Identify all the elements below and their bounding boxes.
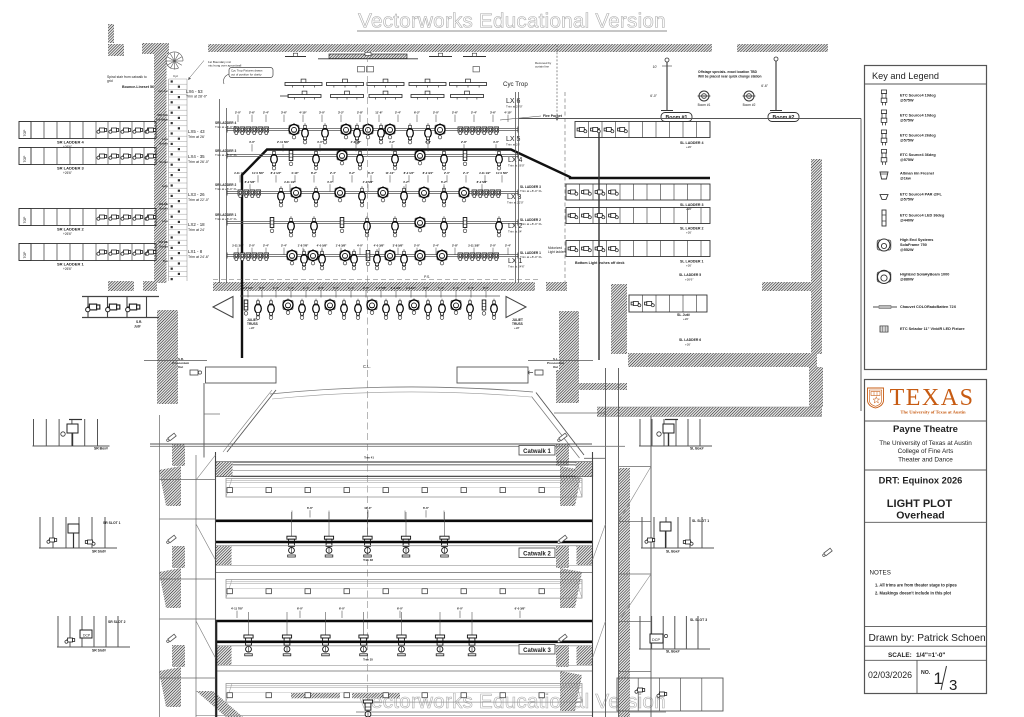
batten LX6 at 347 (331, 95, 364, 98)
apron left diagonal (227, 390, 276, 452)
watermark bottom underline (356, 711, 666, 713)
svg-text:4'-0 3/8": 4'-0 3/8" (351, 140, 362, 144)
juliet fixture mover at 456 (451, 299, 461, 315)
LX2 fixture s4d at 314 (311, 216, 318, 237)
LX1 fixture mover at 345 (340, 249, 350, 265)
wall: top strip left piece (142, 43, 169, 54)
SL dashed line (564, 92, 566, 283)
svg-text:Border: Border (159, 245, 168, 249)
svg-text:SL SLOT 1: SL SLOT 1 (692, 519, 709, 523)
batten LX6 at 385.5 (369, 95, 402, 98)
LX5 fixture mover at 294 (289, 123, 299, 139)
SL ladder fixture SL LADDER 1 cell 4 (609, 247, 619, 252)
svg-text:Trim at 24'6": Trim at 24'6" (508, 265, 525, 269)
SL ladder fixture SL Jut# cell 1 (631, 302, 641, 307)
SL boxes bottom-right row (617, 678, 723, 711)
catwalk3 fixture at 401.5 (401, 612, 403, 635)
ladder fixture in SR LADDER 2 cell 5 (145, 215, 155, 220)
SL ladder fixture SL LADDER 2 cell 3 (595, 214, 605, 219)
ladder fixture in SR LADDER 4 cell 2 (109, 128, 119, 133)
svg-text:+26': +26' (683, 317, 689, 321)
svg-text:2'-11 5/8": 2'-11 5/8" (277, 140, 290, 144)
svg-text:2'-4": 2'-4" (318, 286, 325, 290)
truss band 3 (226, 684, 582, 703)
svg-text:SL LADDER 2: SL LADDER 2 (680, 227, 704, 231)
wall: floor strip far left B (143, 281, 157, 291)
catwalk3 walkway end hatch right (577, 646, 593, 665)
SL room divider horizontals (619, 466, 652, 468)
svg-text:+28': +28' (249, 326, 255, 330)
SR jut ladder box bottom rail (82, 317, 159, 319)
wall: SL bay hatch 2a (556, 546, 569, 568)
svg-text:Bottom Light Inches off deck: Bottom Light Inches off deck (575, 261, 625, 265)
wall: SR lower wall B (157, 370, 178, 404)
SL prosc fixture (535, 370, 543, 375)
LX1 fixture mover at 420 (415, 249, 425, 265)
SR jut fixtures (86, 304, 100, 312)
SL slot 1 (641, 517, 643, 548)
svg-text:Payne Theatre: Payne Theatre (893, 424, 958, 435)
ladder fixture in SR LADDER 4 cell 5 (145, 128, 155, 133)
svg-text:The University of Texas at Aus: The University of Texas at Austin (900, 410, 966, 415)
svg-text:@880W: @880W (900, 277, 914, 281)
svg-text:6'-0": 6'-0" (457, 607, 464, 611)
ladder fixture in SR LADDER 3 cell 3 (121, 154, 131, 159)
section line (865, 521, 987, 523)
svg-text:4'-0": 4'-0" (423, 286, 430, 290)
svg-text:1'-4": 1'-4" (468, 286, 475, 290)
SL jut ladder (629, 295, 707, 312)
svg-text:2'-4": 2'-4" (471, 111, 478, 115)
svg-text:11'-6": 11'-6" (375, 111, 383, 115)
lineset schedule rails (168, 79, 170, 281)
juliet fixture mover at 330 (325, 299, 335, 315)
juliet fixture s4d at 470 (467, 299, 474, 320)
SL ladder fixture SL LADDER 4 cell 3 (604, 128, 614, 133)
LX1 right cluster (458, 253, 463, 258)
catwalk3 fixture at 440 (439, 612, 441, 635)
wall: bottom-left stair hatch (196, 691, 243, 717)
svg-text:Legs: Legs (162, 137, 169, 141)
wall: SL bay hatch 1a (556, 444, 569, 466)
wall sconce at 172,539 (166, 535, 176, 544)
left room horizontals (160, 479, 216, 481)
catwalk right rail (592, 452, 594, 717)
SL ladder fixture SL LADDER 1 cell 2 (582, 247, 592, 252)
catwalk3 fixture at 363.5 (363, 612, 365, 635)
no. divider (916, 660, 918, 693)
boom 1 label box (661, 113, 692, 122)
svg-text:2'-4": 2'-4" (281, 244, 288, 248)
svg-text:6'-4": 6'-4" (368, 171, 375, 175)
svg-text:Border: Border (159, 160, 168, 164)
catwalk2 fixture at 444.5 (444, 512, 446, 536)
key and legend box (865, 66, 987, 370)
batten cyc trop at 303.5 (285, 83, 322, 86)
SL prosc corner block (457, 367, 528, 383)
wall: SL upstage strip piece (762, 282, 811, 291)
svg-text:3'-0": 3'-0" (319, 111, 326, 115)
section line (865, 626, 987, 628)
LX4 fixture mover at 342 (337, 149, 347, 165)
svg-text:NOTES: NOTES (870, 570, 891, 577)
svg-text:8'-2 5/8": 8'-2 5/8" (477, 180, 488, 184)
svg-text:Boom #2: Boom #2 (773, 115, 795, 121)
svg-text:Legs: Legs (162, 219, 169, 223)
svg-text:@575W: @575W (900, 197, 914, 201)
catwalk2 fixture at 291.5 (291, 512, 293, 536)
svg-text:1'-6 3/8": 1'-6 3/8" (336, 244, 347, 248)
svg-text:4'-10": 4'-10" (291, 171, 299, 175)
svg-text:P.S.: P.S. (424, 275, 430, 279)
SR prosc fixture (190, 370, 198, 375)
juliet truss line (240, 295, 500, 297)
legend row Altman 6in Fresnel (880, 172, 888, 179)
boom 1 pipe (666, 60, 668, 111)
svg-text:02/03/2026: 02/03/2026 (868, 670, 912, 680)
svg-text:+28': +28' (514, 326, 520, 330)
juliet fixture ledbar at 484 (482, 300, 486, 315)
SL ladder spine (598, 128, 600, 360)
LX1 fixture s4d at 304 (301, 249, 308, 270)
svg-text:Trim at 24': Trim at 24' (188, 228, 205, 232)
svg-text:Vectorworks Educational Versio: Vectorworks Educational Version (358, 10, 666, 33)
svg-text:+26': +26' (685, 343, 691, 347)
boom 2 pipe (775, 59, 777, 111)
juliet fixture s4d at 358 (355, 299, 362, 320)
svg-text:Catwalk 1: Catwalk 1 (523, 449, 551, 455)
SR ladder 3 (19, 148, 156, 165)
LX1 fixture s4d at 404 (401, 249, 408, 270)
batten cyc trop at 427.5 (409, 83, 446, 86)
small squares above cyc (358, 67, 365, 72)
svg-text:4'-10": 4'-10" (299, 111, 307, 115)
svg-text:SR SLOT 2: SR SLOT 2 (108, 620, 126, 624)
svg-text:Full Black: Full Black (156, 118, 169, 122)
catwalk left outer line (159, 415, 161, 717)
svg-text:6'-0 3/8": 6'-0 3/8" (515, 607, 526, 611)
svg-text:ETC Source4 LED 36deg: ETC Source4 LED 36deg (900, 214, 945, 218)
SR box fixture (67, 424, 78, 433)
svg-text:Spiral stair from catwalk to: Spiral stair from catwalk to (107, 75, 147, 79)
svg-text:SR LADDER 2: SR LADDER 2 (57, 227, 84, 232)
wall sconce at 172,437 (166, 433, 176, 442)
ladder fixture in SR LADDER 1 cell 1 (97, 250, 107, 255)
LX2 fixture s4d at 291 (288, 216, 295, 237)
juliet truss left triangle (213, 297, 233, 318)
svg-text:SR Slot#: SR Slot# (92, 550, 106, 554)
svg-text:TOP: TOP (23, 155, 27, 163)
juliet fixture mover at 372 (367, 299, 377, 315)
svg-text:1'-4": 1'-4" (348, 286, 355, 290)
ladder fixture in SR LADDER 2 cell 1 (97, 215, 107, 220)
catwalk2 walkway lines (216, 565, 593, 567)
apron right diagonal (536, 393, 584, 456)
svg-text:2'-8": 2'-8" (357, 111, 364, 115)
spiral stair (166, 52, 183, 70)
svg-text:2-11 3/8": 2-11 3/8" (468, 244, 480, 248)
svg-text:mic hung over apron/wall: mic hung over apron/wall (208, 64, 242, 68)
juliet fixture s4d at 316 (313, 299, 320, 320)
wall: SL wall lower piece (809, 367, 823, 407)
wall sconce at 563,539 (557, 535, 567, 544)
LX5 right side cluster (458, 127, 463, 132)
svg-text:2'-0": 2'-0" (414, 244, 421, 248)
svg-text:Out: Out (178, 365, 183, 369)
svg-text:Drawn by: Patrick Schoen: Drawn by: Patrick Schoen (869, 633, 986, 644)
section line (865, 659, 987, 661)
electric LX2 pipe (227, 221, 518, 223)
SL ladder fixture SL LADDER 2 cell 1 (568, 214, 578, 219)
svg-text:Flee Pocket: Flee Pocket (543, 114, 563, 118)
svg-text:6'-0": 6'-0" (397, 607, 404, 611)
batten LX6 at 467 (451, 95, 484, 98)
svg-text:Legs: Legs (162, 184, 169, 188)
LX3 fixture s4d at 362 (359, 186, 366, 207)
wall: SR bay hatch 1a (172, 444, 185, 466)
svg-text:SL Box#: SL Box# (666, 550, 680, 554)
svg-text:LIGHT PLOT: LIGHT PLOT (887, 498, 953, 510)
wall sconce at 172,638 (166, 634, 176, 643)
svg-text:SR LADDER 1: SR LADDER 1 (57, 262, 84, 267)
LX5 fixture s4d at 428 (425, 123, 432, 144)
wall: SL prosc wall upper (559, 311, 579, 373)
LX2 fixture s4d at 395 (392, 216, 399, 237)
wall: stage front strip SL piece (546, 282, 567, 291)
juliet fixture s4d at 271 (268, 299, 275, 320)
svg-text:ETC Source4 10deg: ETC Source4 10deg (900, 114, 936, 118)
svg-text:8'-2 3/4": 8'-2 3/4" (423, 171, 434, 175)
svg-text:LX6 - 53: LX6 - 53 (186, 89, 203, 94)
svg-text:2'-8": 2'-8" (452, 244, 459, 248)
watermark top underline (357, 30, 667, 32)
wall: bottom band hatch B (352, 693, 400, 699)
LX1 fixture s4d at 377 (374, 249, 381, 270)
svg-text:Catwalk 3: Catwalk 3 (523, 648, 551, 654)
boom 1 offstage special (698, 91, 711, 101)
LX5 fixture s4d at 381 (378, 123, 385, 144)
juliet fixture s4d at 386 (383, 299, 390, 320)
stage right inner vertical (219, 99, 221, 283)
svg-text:1'-4": 1'-4" (438, 286, 445, 290)
SL ladder fixture SL LADDER 4 cell 4 (618, 128, 628, 133)
wall: SL bay wing 3 (560, 671, 582, 711)
LX5 fixture mover at 346 (341, 123, 351, 139)
apron arc (270, 387, 533, 394)
svg-text:4'-2": 4'-2" (389, 140, 396, 144)
svg-text:+26': +26' (686, 231, 692, 235)
svg-text:3'-6": 3'-6" (281, 111, 288, 115)
batten cyc trop at 385.5 (367, 83, 404, 86)
wall: top-left foot (108, 44, 124, 56)
wall: top strip right piece (737, 44, 828, 52)
bounce pipe segments (285, 56, 306, 58)
svg-text:TOP: TOP (23, 129, 27, 137)
svg-text:grid: grid (107, 79, 113, 83)
svg-text:Theater and Dance: Theater and Dance (898, 457, 953, 464)
wall: SR bay hatch 2a (172, 546, 185, 568)
svg-text:4'-11 7/8": 4'-11 7/8" (231, 607, 244, 611)
bottom-left thick vertical (216, 620, 218, 717)
svg-text:+26'6": +26'6" (63, 171, 72, 175)
catwalk2 label (519, 548, 555, 558)
catwalk2 walkway end hatch right (577, 546, 593, 565)
ladder fixture in SR LADDER 4 cell 3 (121, 128, 131, 133)
LX1 fixture ledbar at 368 (366, 251, 370, 266)
svg-text:Trim at 26': Trim at 26' (188, 135, 205, 139)
wall: stage-left vertical wall (811, 159, 822, 354)
LX1 fixture s4d at 322 (319, 249, 326, 270)
svg-text:Cyc cyc: Cyc cyc (158, 89, 168, 93)
LX5 fixture s4d at 305 (302, 123, 309, 144)
ladder fixture in SR LADDER 3 cell 5 (145, 154, 155, 159)
svg-text:HighEnd SolaHyBeam 1000: HighEnd SolaHyBeam 1000 (900, 273, 949, 277)
SL prosc room bottom line (554, 412, 606, 414)
legend row ETC Source4 10deg (881, 110, 887, 125)
catwalk1 label (519, 446, 555, 456)
bounce hatched batten (329, 54, 407, 59)
svg-text:@575W: @575W (900, 138, 914, 142)
catwalk2 bottom thick line (216, 541, 593, 544)
svg-text:4'-0": 4'-0" (425, 140, 432, 144)
svg-text:@575W: @575W (900, 118, 914, 122)
LX2 fixture ledbar at 272 (270, 218, 274, 233)
SR ladder 4 tail fixture (146, 128, 156, 133)
LX5 fixture mover at 390 (385, 123, 395, 139)
wall: SL proscenium block (556, 370, 579, 403)
svg-text:S.R.: S.R. (136, 320, 142, 324)
LX2 fixture ledbar at 465 (463, 218, 467, 233)
SL ladder fixture SL LADDER 1 cell 1 (568, 247, 578, 252)
line below booms (519, 118, 861, 120)
svg-text:Trim at 28'0": Trim at 28'0" (506, 105, 523, 109)
LX2 fixture s4d at 444 (441, 216, 448, 237)
svg-text:1'-4": 1'-4" (273, 286, 280, 290)
legend row ETC Source4 19deg (881, 90, 887, 105)
svg-text:Offstage specials- exact locat: Offstage specials- exact location TBD (698, 70, 758, 74)
right diagonals braces (619, 467, 652, 522)
LX2 fixture ledbar at 342 (340, 218, 344, 233)
svg-text:LX2 - 18: LX2 - 18 (188, 222, 205, 227)
electric LX3 pipe (227, 191, 518, 193)
svg-text:The University of Texas at Aus: The University of Texas at Austin (879, 440, 972, 447)
catwalk3 walkway end hatch left (216, 646, 232, 665)
catwalk3 fixture at 325.5 (325, 612, 327, 635)
svg-text:@575W: @575W (900, 158, 914, 162)
catwalk2 walkway end hatch left (216, 546, 232, 565)
juliet truss right triangle (506, 297, 526, 318)
batten LX6 at 304.5 (288, 95, 321, 98)
svg-text:ETC Source4 PAR @FL: ETC Source4 PAR @FL (900, 193, 942, 197)
svg-text:Border: Border (159, 207, 168, 211)
svg-text:DRT: Equinox 2026: DRT: Equinox 2026 (879, 476, 963, 486)
svg-text:Overhead: Overhead (896, 510, 944, 522)
svg-text:8'-2 1/2": 8'-2 1/2" (271, 171, 282, 175)
ladder fixture in SR LADDER 1 cell 2 (109, 250, 119, 255)
LX3 fixture s4d at 444 (441, 186, 448, 207)
SL ladder fixture SL LADDER 3 cell 2 (582, 190, 592, 195)
svg-text:Catwalk 2: Catwalk 2 (523, 551, 551, 557)
LX1 fixture mover at 442 (437, 249, 447, 265)
svg-text:2'-4": 2'-4" (395, 111, 402, 115)
juliet fixture s4d at 442 (439, 299, 446, 320)
catwalk2 top thick line (216, 519, 593, 522)
electric LX5 pipe (227, 128, 518, 130)
legend row ETC Source4 LED 36deg (882, 210, 886, 226)
wall sconce at 828,552 (822, 548, 832, 557)
svg-text:2-11 3/8": 2-11 3/8" (232, 244, 244, 248)
ladder fixture in SR LADDER 1 cell 5 (145, 250, 155, 255)
SL slot3 fixture DCP (650, 634, 663, 643)
svg-text:Mid Trav: Mid Trav (157, 113, 168, 117)
svg-text:ETC Selador 11" VividR LED Fix: ETC Selador 11" VividR LED Fixture (900, 327, 965, 331)
wall: SR bay wing 2 (159, 568, 181, 608)
svg-text:6'-0": 6'-0" (297, 607, 304, 611)
svg-text:4'-2": 4'-2" (403, 180, 410, 184)
SR ladder 2 (19, 209, 156, 226)
LX5 fixture s4d at 410 (407, 123, 414, 144)
svg-text:2'-4": 2'-4" (463, 171, 470, 175)
LX3 fixture mover at 340 (335, 186, 345, 202)
wall: SL bay wing 2 (560, 568, 582, 608)
svg-text:11'-0 5/8": 11'-0 5/8" (252, 171, 265, 175)
svg-text:Will be placed near quick chan: Will be placed near quick change station (698, 75, 762, 79)
svg-text:2'-6": 2'-6" (249, 111, 256, 115)
LX2 fixture s4d at 367 (364, 216, 371, 237)
svg-text:SR LADDER 4: SR LADDER 4 (57, 140, 84, 145)
wall: SR bay hatch 3a (172, 645, 185, 667)
centerline dashed (367, 55, 369, 710)
svg-text:ETC Source4 36deg: ETC Source4 36deg (900, 153, 936, 157)
svg-text:4'-0 5/8": 4'-0 5/8" (317, 244, 328, 248)
svg-text:TOP: TOP (23, 251, 27, 259)
catwalk3 fixture at 472 (471, 612, 473, 635)
ladder fixture in SR LADDER 2 cell 3 (121, 215, 131, 220)
SL corridor verticals (605, 368, 607, 717)
leader from mic note to lineset (189, 61, 205, 80)
svg-text:Out: Out (553, 365, 558, 369)
svg-text:SR Slot#: SR Slot# (92, 649, 106, 653)
wall: bottom band hatch A (291, 693, 340, 699)
plot right boundary vertical (860, 119, 862, 412)
svg-text:Jut#: Jut# (134, 325, 141, 329)
SL box (upper right) (639, 419, 641, 446)
svg-text:curtain line: curtain line (535, 65, 549, 69)
svg-text:2'-4": 2'-4" (483, 286, 490, 290)
svg-text:Cyc Trop: Cyc Trop (503, 81, 528, 88)
svg-text:6'-6": 6'-6" (423, 506, 430, 510)
svg-text:Boom #1: Boom #1 (698, 103, 711, 107)
LX5 fixture mover at 368 (363, 123, 373, 139)
SL ladder 4 (575, 122, 710, 138)
SR jut ladder verticals (87, 297, 89, 318)
SL slot 3 (639, 616, 641, 649)
svg-text:1'-4": 1'-4" (288, 286, 295, 290)
juliet fixture s4d at 344 (341, 299, 348, 320)
svg-text:2'-0": 2'-0" (363, 286, 370, 290)
svg-text:SR LADDER 3: SR LADDER 3 (57, 166, 84, 171)
legend row ETC Source4 36deg (881, 150, 887, 165)
svg-text:8'-2 1/2": 8'-2 1/2" (404, 171, 415, 175)
ladder fixture in SR LADDER 2 cell 4 (133, 215, 143, 220)
SR ladder 4 (19, 122, 156, 139)
svg-text:LX1 - 8: LX1 - 8 (188, 249, 203, 254)
svg-text:LX5 - 43: LX5 - 43 (188, 129, 205, 134)
catwalk2 fixture at 367.5 (367, 512, 369, 536)
LX5 fixture s4d at 325 (322, 123, 329, 144)
catwalk1 end hatch right (576, 462, 593, 476)
legend row High End Systems (877, 240, 891, 250)
